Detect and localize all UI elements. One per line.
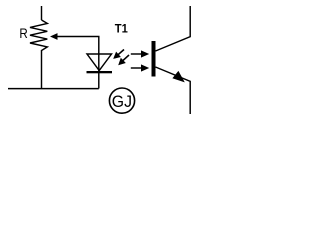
svg-text:GJ: GJ — [112, 92, 132, 111]
svg-text:T1: T1 — [115, 22, 128, 36]
svg-text:R: R — [19, 25, 27, 41]
